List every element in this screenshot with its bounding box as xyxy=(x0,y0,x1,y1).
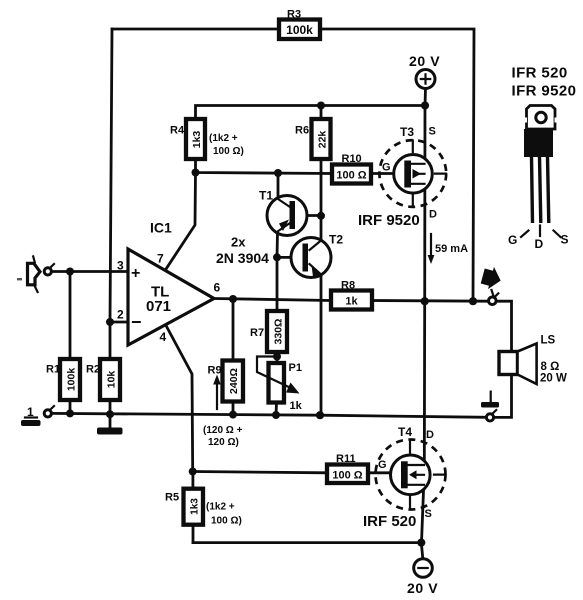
svg-text:240Ω: 240Ω xyxy=(228,368,240,394)
svg-text:R2: R2 xyxy=(86,364,100,376)
svg-text:S: S xyxy=(429,126,436,138)
svg-text:G: G xyxy=(508,233,517,247)
svg-text:R5: R5 xyxy=(165,492,179,504)
svg-text:R3: R3 xyxy=(287,9,301,21)
svg-text:59 mA: 59 mA xyxy=(435,243,468,255)
svg-text:(1k2 +: (1k2 + xyxy=(206,502,235,513)
svg-text:R11: R11 xyxy=(336,453,356,465)
svg-text:R8: R8 xyxy=(341,280,355,292)
svg-text:100k: 100k xyxy=(286,23,313,37)
svg-text:7: 7 xyxy=(157,252,164,266)
svg-text:R6: R6 xyxy=(295,125,309,137)
svg-text:8 Ω: 8 Ω xyxy=(541,361,560,373)
svg-text:4: 4 xyxy=(160,330,167,344)
svg-text:IFR 9520: IFR 9520 xyxy=(512,83,577,100)
svg-text:20 W: 20 W xyxy=(540,373,567,385)
svg-text:T4: T4 xyxy=(398,425,412,439)
svg-text:(120 Ω +: (120 Ω + xyxy=(203,425,243,436)
svg-text:S: S xyxy=(561,233,569,247)
svg-text:R1: R1 xyxy=(46,364,60,376)
svg-text:20 V: 20 V xyxy=(409,53,440,69)
svg-text:T3: T3 xyxy=(400,125,414,139)
svg-text:100 Ω: 100 Ω xyxy=(336,170,366,182)
svg-text:(1k2 +: (1k2 + xyxy=(209,133,238,144)
svg-text:P1: P1 xyxy=(289,362,302,374)
svg-text:R4: R4 xyxy=(170,125,185,137)
svg-text:1k3: 1k3 xyxy=(191,131,203,149)
svg-text:+: + xyxy=(131,265,140,282)
svg-text:1k3: 1k3 xyxy=(190,498,201,515)
svg-text:100 Ω: 100 Ω xyxy=(332,470,362,482)
svg-text:LS: LS xyxy=(541,335,556,347)
svg-text:G: G xyxy=(378,459,387,471)
svg-text:D: D xyxy=(535,237,544,251)
svg-text:100k: 100k xyxy=(66,368,78,392)
svg-text:6: 6 xyxy=(214,281,221,295)
svg-text:T2: T2 xyxy=(329,233,343,247)
svg-text:10k: 10k xyxy=(106,371,118,389)
svg-text:100 Ω): 100 Ω) xyxy=(213,146,244,157)
svg-text:20 V: 20 V xyxy=(407,580,438,596)
svg-text:2x: 2x xyxy=(231,235,246,250)
svg-text:IFR 520: IFR 520 xyxy=(512,65,568,82)
svg-text:1k: 1k xyxy=(345,296,358,308)
svg-text:3: 3 xyxy=(117,259,124,273)
svg-text:IC1: IC1 xyxy=(150,220,172,236)
svg-text:2N 3904: 2N 3904 xyxy=(216,250,269,266)
svg-text:120 Ω): 120 Ω) xyxy=(208,437,239,448)
svg-text:G: G xyxy=(382,162,391,174)
svg-text:330Ω: 330Ω xyxy=(273,319,285,345)
svg-text:100 Ω): 100 Ω) xyxy=(211,516,242,527)
svg-text:S: S xyxy=(425,508,432,520)
svg-text:D: D xyxy=(429,209,437,221)
svg-text:22k: 22k xyxy=(317,131,329,149)
svg-text:071: 071 xyxy=(146,298,171,315)
svg-text:IRF 520: IRF 520 xyxy=(363,513,416,530)
svg-text:R9: R9 xyxy=(208,365,222,377)
svg-text:1k: 1k xyxy=(290,400,303,412)
svg-text:−: − xyxy=(131,312,142,332)
svg-text:2: 2 xyxy=(117,308,124,322)
svg-text:IRF 9520: IRF 9520 xyxy=(358,212,420,229)
svg-text:D: D xyxy=(426,429,434,441)
svg-text:T1: T1 xyxy=(259,189,273,203)
svg-text:R7: R7 xyxy=(250,327,264,339)
svg-text:R10: R10 xyxy=(342,153,362,165)
